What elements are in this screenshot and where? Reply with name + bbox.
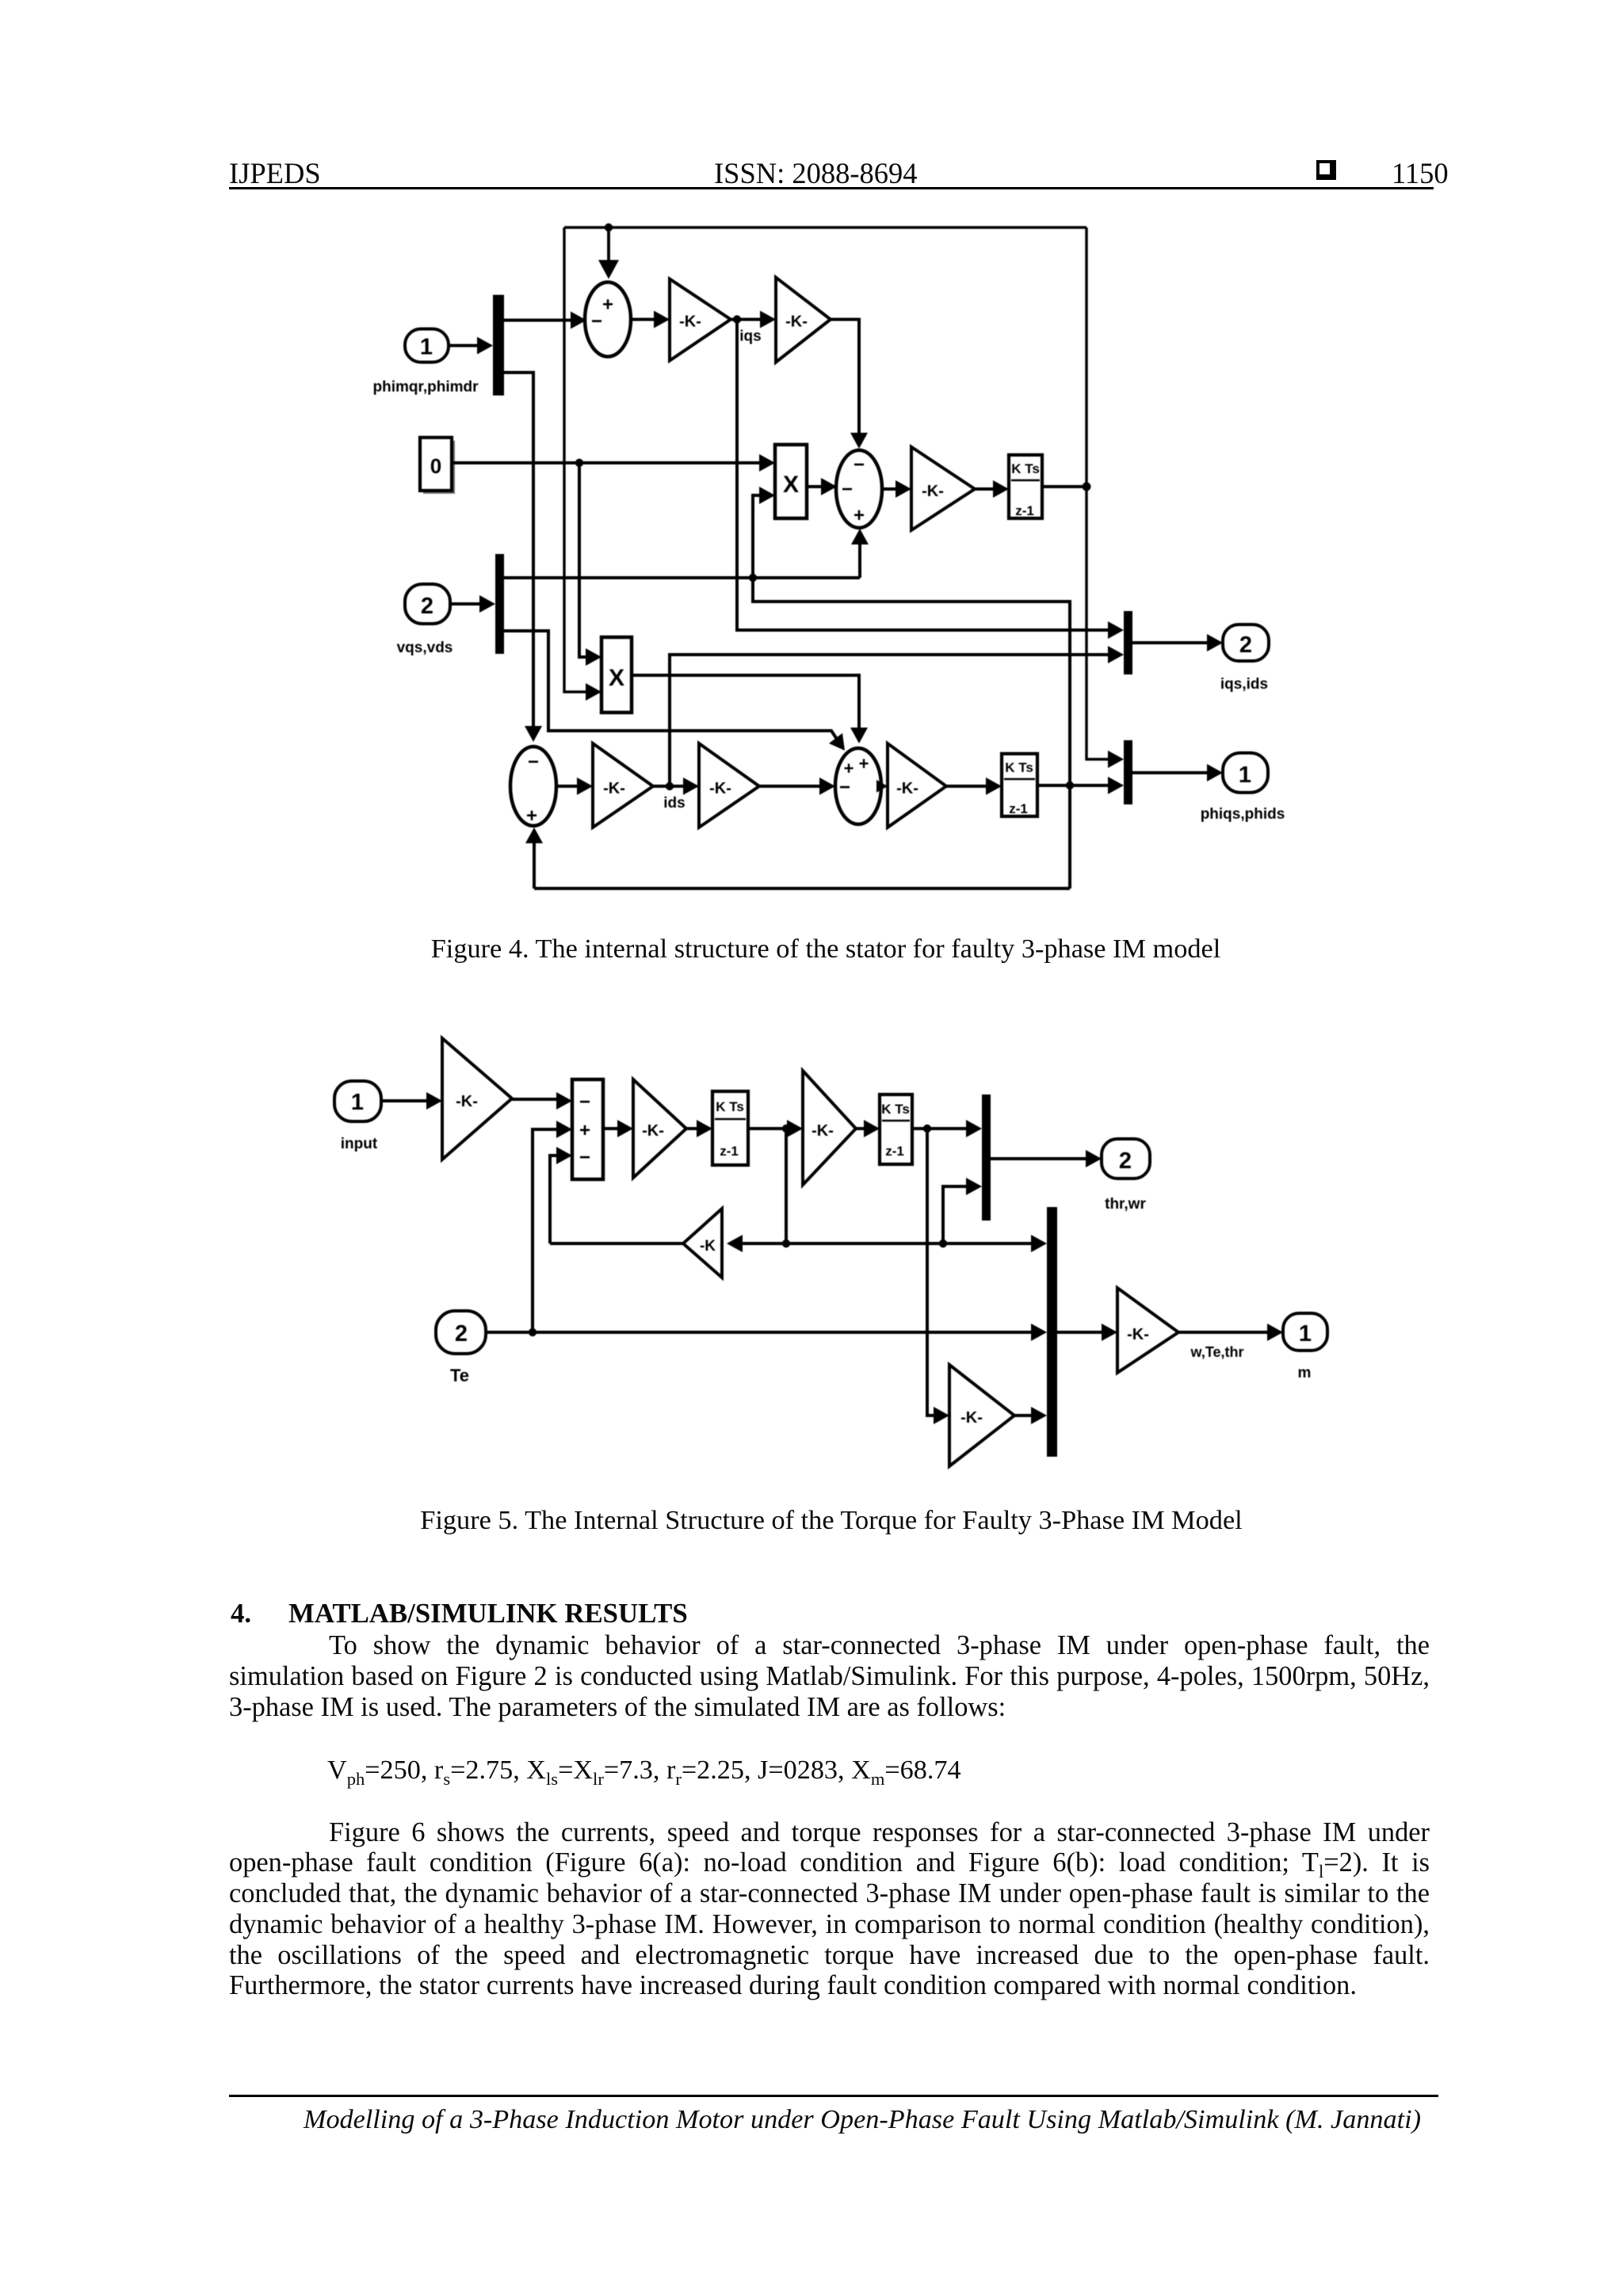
svg-text:-K: -K xyxy=(700,1238,716,1255)
wire sum1 to gain1 xyxy=(631,311,670,328)
svg-text:−: − xyxy=(591,311,602,332)
svg-text:phimqr,phimdr: phimqr,phimdr xyxy=(373,379,479,395)
wire bottom feedback to sum3 xyxy=(525,827,1070,888)
svg-text:z-1: z-1 xyxy=(1015,503,1034,518)
wire block1 output to feedback loop xyxy=(1042,483,1091,491)
wire gainD output to riser xyxy=(550,1242,683,1245)
svg-text:+: + xyxy=(844,758,854,778)
wire Te branch riser to sum block + input xyxy=(533,1121,572,1332)
output port 1 (phiqs,phids) xyxy=(1223,753,1268,793)
svg-text:X: X xyxy=(609,665,624,691)
wire mux to output port 2 xyxy=(1132,634,1223,651)
label ids xyxy=(663,795,685,812)
svg-text:ids: ids xyxy=(663,795,685,812)
paragraph 1 xyxy=(229,1630,1430,1661)
wire branch down to feedback gainD xyxy=(785,1129,788,1244)
wire gainA to sum block xyxy=(512,1092,572,1110)
svg-text:vqs,vds: vqs,vds xyxy=(397,640,453,656)
output port 1 (m) xyxy=(1283,1313,1327,1350)
svg-text:-K-: -K- xyxy=(896,780,918,797)
svg-text:z-1: z-1 xyxy=(1009,801,1028,816)
svg-text:-K-: -K- xyxy=(811,1122,834,1140)
label phiqs,phids xyxy=(1201,806,1285,823)
svg-text:2: 2 xyxy=(455,1321,468,1347)
output port 2 (iqs,ids) xyxy=(1223,625,1269,661)
svg-text:input: input xyxy=(341,1136,378,1152)
svg-text:0: 0 xyxy=(430,454,441,478)
svg-text:−: − xyxy=(579,1091,590,1113)
svg-text:z-1: z-1 xyxy=(720,1144,739,1159)
wire bar2 lower output to sum4 upper-left xyxy=(503,631,845,751)
wire constant 0 to product X1 xyxy=(452,454,775,472)
wire feedback line right to mux2 xyxy=(782,1235,1047,1252)
svg-text:1: 1 xyxy=(1299,1321,1312,1347)
input port 2 (Te) xyxy=(436,1311,486,1354)
svg-text:2: 2 xyxy=(1239,632,1252,658)
gain3 -K- xyxy=(911,447,975,530)
wire gain5 to sum4 xyxy=(759,777,835,795)
label phimqr,phimdr xyxy=(373,379,479,395)
wire gain1 to gain2, node iqs xyxy=(731,311,776,328)
svg-text:2: 2 xyxy=(1119,1148,1132,1174)
section heading xyxy=(231,1598,251,1629)
label m xyxy=(1298,1365,1312,1381)
svg-text:m: m xyxy=(1298,1365,1312,1381)
label input xyxy=(341,1136,378,1152)
gainD -K- (left pointing) xyxy=(683,1209,722,1278)
demux bar phiqs,phids xyxy=(1124,740,1132,804)
svg-text:+: + xyxy=(526,805,537,827)
sum block (rectangle) xyxy=(572,1079,603,1179)
gain1 -K- xyxy=(670,279,731,361)
svg-text:K Ts: K Ts xyxy=(1011,461,1040,476)
svg-text:iqs: iqs xyxy=(739,328,761,345)
svg-text:-K-: -K- xyxy=(642,1122,664,1140)
wire bar1 down to sum3 top xyxy=(504,372,542,742)
discrete transfer block K Ts/z-1 (C) xyxy=(880,1095,912,1164)
svg-text:-K-: -K- xyxy=(603,780,625,797)
wire input to gainA xyxy=(381,1092,442,1110)
svg-text:−: − xyxy=(842,479,853,500)
paragraph 2 xyxy=(229,1817,1430,1848)
label Te xyxy=(450,1366,469,1385)
gainB -K- xyxy=(633,1079,686,1178)
wire bar2 to sum2 bottom xyxy=(503,529,869,582)
svg-text:−: − xyxy=(528,751,539,773)
output port 2 (thr,wr) xyxy=(1102,1139,1150,1179)
label w,Te,thr xyxy=(1190,1344,1244,1360)
wire gainE to mux2 xyxy=(1014,1407,1047,1424)
mux bar2 xyxy=(495,554,504,654)
footer text xyxy=(229,2105,1421,2135)
constant block 0 xyxy=(420,437,455,494)
svg-text:+: + xyxy=(859,754,869,774)
wire branch down to gainE xyxy=(927,1129,949,1424)
wire gain4 to gain5, node ids xyxy=(653,777,699,795)
svg-text:iqs,ids: iqs,ids xyxy=(1220,676,1268,693)
gainC -K- xyxy=(803,1071,856,1185)
svg-text:−: − xyxy=(579,1147,590,1168)
wire ids node up to output mux xyxy=(670,646,1124,786)
demux bar iqs,ids xyxy=(1124,611,1132,674)
svg-text:-K-: -K- xyxy=(679,313,701,330)
wire feedback riser to sum block lower - input xyxy=(550,1147,572,1244)
discrete transfer block K Ts/z-1 (1) xyxy=(1009,455,1042,518)
wire port2 to mux bar2 xyxy=(450,595,495,613)
svg-text:-K-: -K- xyxy=(1127,1326,1149,1343)
sum junction sum3 xyxy=(510,747,556,827)
mux bar 1 (thr,wr) xyxy=(982,1095,991,1221)
wire sum2 to gain3 xyxy=(882,480,911,498)
svg-text:−: − xyxy=(854,454,865,476)
sum junction sum4 xyxy=(835,748,881,824)
wire gainB to discrete block B xyxy=(686,1120,712,1137)
svg-text:K Ts: K Ts xyxy=(1005,760,1033,775)
svg-text:1: 1 xyxy=(351,1090,364,1115)
svg-text:1: 1 xyxy=(420,334,433,360)
gainE -K- xyxy=(949,1365,1014,1466)
header rule xyxy=(229,187,1434,189)
svg-text:thr,wr: thr,wr xyxy=(1105,1196,1146,1213)
wire block B to gainC xyxy=(748,1120,803,1137)
wire Te to mux2 xyxy=(486,1324,1047,1341)
svg-text:2: 2 xyxy=(421,594,433,619)
svg-text:−: − xyxy=(839,777,850,798)
equation xyxy=(327,1755,961,1790)
wire X2 output to sum4 top xyxy=(632,675,868,743)
label iqs xyxy=(739,328,761,345)
wire riser to mux1 lower input xyxy=(943,1178,982,1244)
svg-text:Te: Te xyxy=(450,1366,469,1385)
gain5 -K- xyxy=(699,743,759,827)
svg-text:X: X xyxy=(783,472,799,498)
label vqs,vds xyxy=(397,640,453,656)
label thr,wr xyxy=(1105,1196,1146,1213)
wire sum3 to gain4 xyxy=(556,777,593,795)
wire bar1 to sum1 xyxy=(504,311,586,329)
svg-text:z-1: z-1 xyxy=(885,1144,904,1159)
svg-text:w,Te,thr: w,Te,thr xyxy=(1190,1344,1244,1360)
sum junction sum1 xyxy=(585,282,631,357)
wire port1 to mux bar1 xyxy=(449,337,493,354)
gainF -K- xyxy=(1117,1288,1178,1373)
svg-text:-K-: -K- xyxy=(456,1093,478,1110)
header xyxy=(229,156,321,190)
wire sum block to gainB xyxy=(603,1120,633,1137)
header square icon xyxy=(1316,160,1336,180)
wire gain2 to sum2 top xyxy=(831,319,868,449)
input port 2 (vqs,vds) xyxy=(405,584,450,624)
svg-text:-K-: -K- xyxy=(922,483,944,500)
wire mux2 to gainF xyxy=(1057,1324,1117,1341)
product block X1 xyxy=(775,445,807,518)
label iqs,ids xyxy=(1220,676,1268,693)
mux bar 2 (w,Te,thr) xyxy=(1047,1207,1057,1457)
wire iqs node down to output mux xyxy=(737,319,1124,639)
feedback left wire down to product X2 xyxy=(564,227,601,701)
wire gainF to output port m xyxy=(1178,1324,1283,1341)
svg-text:K Ts: K Ts xyxy=(881,1102,910,1117)
svg-text:1: 1 xyxy=(1239,762,1251,788)
wire 0-branch down to product X2 upper input xyxy=(579,463,601,666)
svg-text:-K-: -K- xyxy=(709,780,731,797)
wire gain6 to discrete block 2 xyxy=(946,777,1002,795)
svg-text:+: + xyxy=(854,505,865,526)
discrete transfer block K Ts/z-1 (B) xyxy=(712,1091,748,1165)
svg-text:-K-: -K- xyxy=(785,313,808,330)
input port 1 (phimqr,phimdr) xyxy=(405,329,449,362)
footer rule xyxy=(229,2095,1438,2097)
wire feedback line into gainD xyxy=(727,1235,786,1252)
wire gain3 to discrete block 1 xyxy=(975,480,1009,498)
svg-text:+: + xyxy=(579,1120,590,1141)
wire block2 output to phiqs mux xyxy=(1037,777,1124,794)
wire X1 to sum2 xyxy=(807,478,837,495)
gainA -K- xyxy=(442,1038,512,1159)
svg-text:K Ts: K Ts xyxy=(716,1099,744,1114)
sum junction sum2 xyxy=(836,450,882,528)
gain6 -K- xyxy=(888,743,946,827)
product block X2 xyxy=(601,637,632,712)
mux bar1 xyxy=(493,295,504,395)
svg-text:+: + xyxy=(602,294,613,315)
discrete transfer block K Ts/z-1 (2) xyxy=(1002,754,1037,816)
wire sum4 to gain6 xyxy=(876,780,888,793)
wire mux1 to output port 2 xyxy=(991,1150,1102,1167)
gain2 -K- xyxy=(776,277,831,362)
feedback top wire xyxy=(564,223,1086,279)
svg-text:-K-: -K- xyxy=(960,1409,983,1427)
caption figure 5 xyxy=(229,1505,1434,1536)
wire riser to X1 lower input xyxy=(753,487,775,602)
input port 1 (input) xyxy=(334,1081,381,1121)
gain4 -K- xyxy=(593,743,653,827)
caption figure 4 xyxy=(223,934,1428,965)
svg-text:phiqs,phids: phiqs,phids xyxy=(1201,806,1285,823)
wire vds branch vertical xyxy=(753,578,1070,888)
wire gainC to discrete block C xyxy=(856,1120,880,1137)
wire block C to mux1 xyxy=(912,1120,982,1137)
feedback right wire down to phiqs mux xyxy=(1086,227,1124,768)
wire mux to output port 1 xyxy=(1132,764,1223,781)
